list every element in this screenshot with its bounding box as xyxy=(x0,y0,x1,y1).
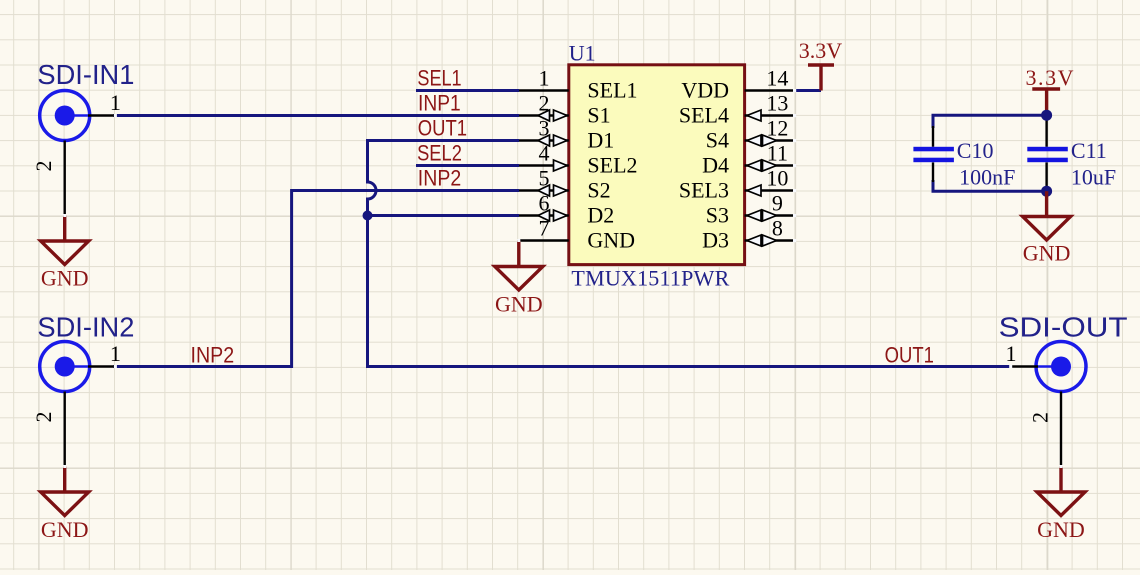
svg-text:2: 2 xyxy=(1028,412,1053,423)
svg-text:1: 1 xyxy=(539,66,550,91)
U1 pin 1 SEL1 xyxy=(519,66,638,103)
svg-text:14: 14 xyxy=(766,66,788,91)
svg-text:SEL1: SEL1 xyxy=(417,66,461,91)
svg-text:TMUX1511PWR: TMUX1511PWR xyxy=(571,266,729,291)
svg-text:SDI-IN2: SDI-IN2 xyxy=(37,312,134,343)
svg-text:S1: S1 xyxy=(587,103,610,128)
svg-text:2: 2 xyxy=(31,161,56,172)
power port 3.3V above decoupling caps xyxy=(1026,65,1074,115)
svg-text:S3: S3 xyxy=(706,203,729,228)
connector J SDI-OUT xyxy=(999,311,1128,391)
svg-text:SEL2: SEL2 xyxy=(587,153,637,178)
connector J SDI-IN1 xyxy=(37,59,134,141)
pin 2 of SDI-OUT xyxy=(1060,392,1062,467)
svg-text:7: 7 xyxy=(539,216,550,241)
svg-text:S4: S4 xyxy=(706,128,729,153)
svg-text:S2: S2 xyxy=(587,178,610,203)
wire D2 branch: junction to U1 pin6 xyxy=(368,214,520,217)
junction dot cap bottom xyxy=(1041,186,1052,197)
connector J SDI-IN2 xyxy=(37,312,134,392)
svg-text:3.3V: 3.3V xyxy=(799,38,843,63)
U1 pin 7 GND xyxy=(519,216,635,253)
svg-text:SDI-IN1: SDI-IN1 xyxy=(37,59,134,90)
U1 pin 11 D4 xyxy=(702,141,796,178)
svg-text:10: 10 xyxy=(766,166,788,191)
svg-text:13: 13 xyxy=(766,91,788,116)
U1 pin 13 SEL4 xyxy=(679,91,796,128)
junction dot at OUT1/D2 xyxy=(363,211,373,221)
wire SEL2 stub at U1 pin4 xyxy=(416,164,519,167)
svg-text:SEL3: SEL3 xyxy=(679,178,729,203)
U1 pin 14 VDD xyxy=(681,66,795,103)
ground symbol at SDI-OUT xyxy=(1037,467,1085,516)
svg-text:OUT1: OUT1 xyxy=(885,343,934,368)
svg-text:U1: U1 xyxy=(569,41,596,66)
svg-text:GND: GND xyxy=(41,266,89,291)
svg-text:1: 1 xyxy=(110,90,121,115)
pin 1 of SDI-IN2 xyxy=(88,365,115,367)
U1 pin 10 SEL3 xyxy=(679,166,796,203)
pin 1 of SDI-OUT xyxy=(1011,365,1038,367)
ground symbol at SDI-IN1 xyxy=(41,216,89,265)
power port 3.3V at U1 pin 14 xyxy=(799,38,843,91)
capacitor C10 xyxy=(913,126,1015,190)
wire OUT1 net: U1 pin3 down to SDI-OUT with hop over INP2 xyxy=(368,141,1013,367)
ground symbol at U1 pin 7 xyxy=(495,241,543,291)
pin 2 of SDI-IN2 xyxy=(63,392,65,467)
pin 1 of SDI-IN1 xyxy=(88,114,115,116)
svg-text:SEL2: SEL2 xyxy=(417,140,462,165)
svg-text:GND: GND xyxy=(495,292,543,317)
U1 pin 6 D2 xyxy=(519,191,614,228)
svg-text:4: 4 xyxy=(539,141,550,166)
pin 2 of SDI-IN1 xyxy=(63,141,65,216)
svg-text:SEL4: SEL4 xyxy=(679,103,729,128)
wire SEL1 stub at U1 pin1 xyxy=(416,89,519,92)
U1 pin 4 SEL2 xyxy=(519,141,638,178)
svg-text:3.3V: 3.3V xyxy=(1026,65,1074,90)
junction dot cap top xyxy=(1041,110,1052,121)
svg-text:1: 1 xyxy=(1006,341,1017,366)
svg-text:1: 1 xyxy=(110,341,121,366)
U1 pin 12 S4 xyxy=(706,116,796,153)
svg-text:8: 8 xyxy=(772,216,783,241)
U1 pin 2 S1 xyxy=(519,91,611,128)
svg-text:D1: D1 xyxy=(587,128,614,153)
ground symbol below caps xyxy=(1023,191,1071,240)
svg-text:C11: C11 xyxy=(1071,138,1107,163)
U1 pin 8 D3 xyxy=(702,216,796,253)
svg-text:11: 11 xyxy=(767,141,788,166)
wire INP1 net: SDI-IN1 pin1 to U1 pin2 xyxy=(113,114,519,117)
svg-text:OUT1: OUT1 xyxy=(418,115,467,140)
svg-text:C10: C10 xyxy=(957,138,994,163)
svg-text:SDI-OUT: SDI-OUT xyxy=(999,311,1128,342)
svg-text:INP2: INP2 xyxy=(191,343,235,368)
svg-text:D4: D4 xyxy=(702,153,729,178)
wire cap top rail xyxy=(933,115,1047,128)
U1 pin 5 S2 xyxy=(519,166,611,203)
capacitor C11 xyxy=(1027,117,1116,190)
wire VDD: U1 pin14 to 3.3V port xyxy=(793,89,821,92)
op IC U1 body xyxy=(569,65,745,265)
svg-text:GND: GND xyxy=(1037,517,1085,542)
pin end markers xyxy=(63,89,1062,468)
wire INP2 net: SDI-IN2 pin1 up to U1 pin5 xyxy=(113,191,519,367)
svg-text:GND: GND xyxy=(587,228,635,253)
wire cap bottom rail xyxy=(933,180,1047,191)
svg-text:INP1: INP1 xyxy=(418,91,461,116)
U1 pin 3 D1 xyxy=(519,116,614,153)
svg-text:2: 2 xyxy=(31,412,56,423)
svg-text:VDD: VDD xyxy=(681,78,729,103)
svg-text:GND: GND xyxy=(41,517,89,542)
svg-text:SEL1: SEL1 xyxy=(587,78,637,103)
svg-text:10uF: 10uF xyxy=(1071,165,1116,190)
svg-text:9: 9 xyxy=(772,191,783,216)
svg-text:D3: D3 xyxy=(702,228,729,253)
svg-text:INP2: INP2 xyxy=(418,165,461,190)
svg-text:D2: D2 xyxy=(587,203,614,228)
ground symbol at SDI-IN2 xyxy=(41,467,89,516)
svg-text:12: 12 xyxy=(766,116,788,141)
svg-text:100nF: 100nF xyxy=(959,165,1015,190)
U1 pin 9 S3 xyxy=(706,191,796,228)
svg-text:GND: GND xyxy=(1023,240,1071,265)
